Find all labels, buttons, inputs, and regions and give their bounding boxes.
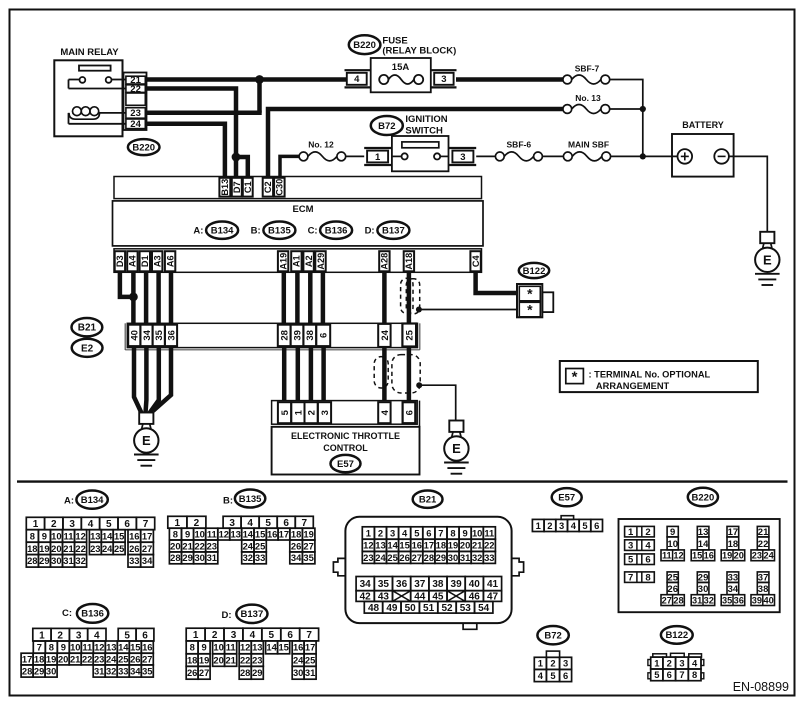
svg-text:26: 26 <box>129 543 139 554</box>
svg-text:B:: B: <box>251 226 261 237</box>
svg-text:23: 23 <box>90 543 100 554</box>
svg-text:53: 53 <box>460 603 472 614</box>
svg-text:18: 18 <box>728 539 739 550</box>
svg-text:50: 50 <box>405 603 417 614</box>
svg-text:E: E <box>763 252 772 267</box>
svg-text:22: 22 <box>240 654 250 665</box>
svg-text:31: 31 <box>94 665 104 676</box>
svg-text:19: 19 <box>722 551 732 561</box>
svg-text:33: 33 <box>118 665 128 676</box>
svg-text:3: 3 <box>563 658 568 669</box>
svg-text:1: 1 <box>654 657 659 668</box>
svg-text:12: 12 <box>673 551 683 561</box>
svg-text:24: 24 <box>293 654 304 665</box>
svg-text:15: 15 <box>114 530 124 541</box>
svg-text:28: 28 <box>27 555 37 566</box>
svg-text:*: * <box>527 302 533 318</box>
connector label E2 <box>72 339 103 357</box>
svg-text:A3: A3 <box>153 255 163 267</box>
wire: bus to battery + <box>643 155 678 157</box>
svg-text:A:: A: <box>193 226 203 237</box>
svg-text:14: 14 <box>698 539 709 550</box>
svg-text:ECM: ECM <box>292 204 313 215</box>
intermediate connector strip B21/E2 <box>124 323 126 350</box>
svg-text:B136: B136 <box>325 226 348 237</box>
connector label B72 (ignition switch) <box>371 116 403 135</box>
svg-text:21: 21 <box>63 543 73 554</box>
svg-text:3: 3 <box>679 657 684 668</box>
svg-text:18: 18 <box>187 654 197 665</box>
wire: B21 39 to E57 1 <box>296 348 301 402</box>
svg-text:3: 3 <box>460 152 465 163</box>
svg-text:13: 13 <box>252 642 262 653</box>
svg-text:29: 29 <box>39 555 49 566</box>
wire: SBF-6 to MAIN SBF <box>542 155 563 157</box>
svg-text:3: 3 <box>231 630 237 641</box>
svg-text:2: 2 <box>307 410 318 415</box>
svg-text:24: 24 <box>763 551 774 561</box>
svg-text:8: 8 <box>173 529 178 540</box>
svg-text:40: 40 <box>130 330 141 341</box>
svg-text:B21: B21 <box>78 323 97 334</box>
svg-text:35: 35 <box>154 329 165 340</box>
svg-text:22: 22 <box>75 543 85 554</box>
svg-text:C30: C30 <box>275 179 285 196</box>
svg-text:21: 21 <box>472 540 482 551</box>
svg-text:15A: 15A <box>392 62 410 73</box>
wire: B21 28 to E57 5 <box>282 348 287 402</box>
wire: No.12 to ignition 1 <box>346 155 365 157</box>
svg-text:A29: A29 <box>316 253 326 270</box>
svg-text:D:: D: <box>365 226 375 237</box>
svg-text:11: 11 <box>662 551 672 561</box>
svg-text:32: 32 <box>106 665 116 676</box>
svg-text:19: 19 <box>303 529 313 540</box>
svg-text:1: 1 <box>366 527 371 538</box>
svg-text:7: 7 <box>143 519 149 530</box>
svg-text:: TERMINAL No. OPTIONAL: : TERMINAL No. OPTIONAL <box>589 370 711 380</box>
svg-text:27: 27 <box>303 540 313 551</box>
svg-text:23: 23 <box>130 108 141 119</box>
svg-text:9: 9 <box>462 527 467 538</box>
wire: ECM A4 to E2 40 <box>131 272 136 326</box>
wire: B21 24 to E57 4 <box>382 348 387 402</box>
wire: No.13 to battery bus <box>610 108 643 110</box>
svg-text:21: 21 <box>225 654 235 665</box>
wire: ECM A3 to E2 35 <box>156 272 161 326</box>
svg-text:13: 13 <box>375 540 385 551</box>
svg-text:A6: A6 <box>165 255 175 267</box>
svg-text:B220: B220 <box>353 40 376 51</box>
wire: ECM A28 to B21 24 <box>382 272 387 326</box>
svg-text:19: 19 <box>199 654 209 665</box>
connector label B220 (main relay) <box>128 139 160 155</box>
svg-text:SWITCH: SWITCH <box>405 126 443 137</box>
svg-text:17: 17 <box>279 529 289 540</box>
svg-text:24: 24 <box>243 540 254 551</box>
svg-text:26: 26 <box>130 653 140 664</box>
junction: No.13/bus <box>640 106 646 112</box>
svg-text:B122: B122 <box>523 266 546 277</box>
svg-text:5: 5 <box>654 669 659 680</box>
svg-text:25: 25 <box>114 543 124 554</box>
svg-text:6: 6 <box>404 410 415 415</box>
svg-text:16: 16 <box>267 529 277 540</box>
wire: B21 38 to E57 2 <box>309 348 314 402</box>
svg-text:9: 9 <box>201 642 206 653</box>
svg-text:4: 4 <box>94 630 100 641</box>
svg-text:3: 3 <box>76 630 82 641</box>
svg-text:11: 11 <box>82 642 92 653</box>
svg-text:15: 15 <box>130 642 140 653</box>
svg-text:30: 30 <box>194 552 204 563</box>
connector label B122 <box>519 263 549 278</box>
wire: ECM A6 to E2 36 <box>169 272 174 326</box>
svg-text:41: 41 <box>487 579 499 590</box>
wire: ECM D1 to E2 34 <box>144 272 149 326</box>
wire: junction down to relay 23 row <box>257 80 262 113</box>
svg-text:31: 31 <box>460 552 470 563</box>
wire: ignition 3 to SBF-6 <box>476 155 495 157</box>
electronic throttle control connector strip <box>272 401 418 425</box>
svg-text:6: 6 <box>645 555 650 566</box>
svg-text:35: 35 <box>722 595 732 605</box>
svg-text:3: 3 <box>559 520 564 531</box>
svg-text:B134: B134 <box>211 226 234 237</box>
svg-text:D7: D7 <box>232 181 242 193</box>
svg-text:22: 22 <box>82 653 92 664</box>
svg-text:5: 5 <box>106 519 112 530</box>
svg-text:B:: B: <box>223 496 233 507</box>
svg-text:1: 1 <box>536 520 541 531</box>
svg-text:30: 30 <box>293 667 303 678</box>
svg-text:2: 2 <box>57 630 63 641</box>
svg-text:9: 9 <box>61 642 66 653</box>
svg-text:34: 34 <box>142 555 153 566</box>
svg-text:2: 2 <box>550 658 555 669</box>
svg-text:2: 2 <box>667 657 672 668</box>
svg-text:39: 39 <box>292 330 303 341</box>
svg-text:*: * <box>572 369 578 386</box>
wire: relay 22 to ECM D7 <box>145 89 236 178</box>
svg-text:No. 12: No. 12 <box>308 140 334 150</box>
svg-text:C:: C: <box>308 226 318 237</box>
svg-text:17: 17 <box>424 540 434 551</box>
svg-text:14: 14 <box>243 529 254 540</box>
svg-text:17: 17 <box>142 530 152 541</box>
svg-text:SBF-6: SBF-6 <box>507 140 532 150</box>
svg-text:40: 40 <box>763 595 773 605</box>
svg-text:26: 26 <box>399 552 409 563</box>
svg-text:20: 20 <box>213 654 223 665</box>
svg-text:5: 5 <box>414 527 419 538</box>
svg-text:5: 5 <box>124 630 130 641</box>
wire: ECM A18 to B21 25 <box>407 272 412 326</box>
svg-text:B136: B136 <box>81 609 104 620</box>
connector B122 pinout <box>661 626 693 644</box>
ground E (battery) <box>760 232 774 243</box>
svg-text:1: 1 <box>39 630 45 641</box>
svg-text:6: 6 <box>563 670 568 681</box>
svg-text:8: 8 <box>190 642 195 653</box>
svg-text:31: 31 <box>692 595 702 605</box>
connector label B220 (fuse/relay block) <box>349 35 381 54</box>
svg-text:14: 14 <box>387 540 398 551</box>
svg-text:26: 26 <box>187 667 197 678</box>
svg-text:33: 33 <box>255 552 265 563</box>
svg-text:54: 54 <box>478 603 490 614</box>
svg-text:6: 6 <box>142 630 148 641</box>
svg-text:28: 28 <box>280 330 291 341</box>
svg-text:10: 10 <box>51 530 61 541</box>
svg-text:1: 1 <box>193 630 199 641</box>
wire: ECM A1 to B21 39 <box>295 272 300 326</box>
svg-text:25: 25 <box>405 329 416 340</box>
svg-text:8: 8 <box>49 642 54 653</box>
svg-text:31: 31 <box>63 555 73 566</box>
svg-text:B134: B134 <box>81 495 104 506</box>
svg-text:E: E <box>452 441 461 456</box>
svg-text:4: 4 <box>380 409 391 415</box>
svg-text:12: 12 <box>94 642 104 653</box>
svg-text:3: 3 <box>320 410 331 415</box>
svg-text:3: 3 <box>390 527 395 538</box>
wire: relay 24 to ECM B13 <box>145 124 225 177</box>
svg-text:9: 9 <box>185 529 190 540</box>
connector B72 pinout <box>537 626 568 644</box>
svg-text:24: 24 <box>380 329 391 340</box>
svg-text:4: 4 <box>250 630 256 641</box>
svg-text:B220: B220 <box>132 142 155 153</box>
wire: optional tap to ground <box>419 385 456 420</box>
svg-text:4: 4 <box>571 520 577 531</box>
svg-text:IGNITION: IGNITION <box>405 114 447 125</box>
svg-text:16: 16 <box>412 540 422 551</box>
svg-text:3: 3 <box>628 541 633 552</box>
svg-text:27: 27 <box>142 653 152 664</box>
svg-text:BATTERY: BATTERY <box>682 120 724 130</box>
svg-text:B137: B137 <box>241 609 264 620</box>
svg-text:7: 7 <box>628 573 633 584</box>
junction: A18 optional tap <box>416 307 422 313</box>
svg-text:34: 34 <box>130 665 141 676</box>
svg-text:31: 31 <box>207 552 217 563</box>
svg-text:A28: A28 <box>380 253 390 270</box>
svg-text:49: 49 <box>386 603 398 614</box>
svg-text:5: 5 <box>280 409 291 415</box>
svg-text:D:: D: <box>221 610 231 621</box>
wire: B21 25 to E57 6 <box>407 348 412 402</box>
svg-text:ELECTRONIC THROTTLE: ELECTRONIC THROTTLE <box>291 431 400 441</box>
svg-text:31: 31 <box>305 667 315 678</box>
svg-text:16: 16 <box>129 530 139 541</box>
svg-text:ARRANGEMENT: ARRANGEMENT <box>596 381 670 391</box>
svg-text:C1: C1 <box>243 181 253 193</box>
svg-text:A18: A18 <box>404 253 414 270</box>
svg-text:20: 20 <box>51 543 61 554</box>
svg-text:30: 30 <box>46 665 56 676</box>
svg-text:16: 16 <box>293 642 303 653</box>
main relay terminal strip (pins 21-24) <box>124 73 147 131</box>
svg-text:(RELAY BLOCK): (RELAY BLOCK) <box>382 46 456 57</box>
svg-text:16: 16 <box>704 551 714 561</box>
svg-text:27: 27 <box>662 595 672 605</box>
svg-text:12: 12 <box>363 540 373 551</box>
svg-text:5: 5 <box>550 670 555 681</box>
svg-text:24: 24 <box>102 543 113 554</box>
svg-text:28: 28 <box>22 665 32 676</box>
svg-text:11: 11 <box>64 530 74 541</box>
svg-text:22: 22 <box>194 540 204 551</box>
svg-text:6: 6 <box>124 519 130 530</box>
svg-text:35: 35 <box>303 552 313 563</box>
svg-text:15: 15 <box>399 540 409 551</box>
svg-text:15: 15 <box>255 529 265 540</box>
svg-text:38: 38 <box>305 330 316 341</box>
svg-text:22: 22 <box>484 540 494 551</box>
svg-text:E: E <box>142 433 151 448</box>
svg-text:2: 2 <box>51 519 57 530</box>
svg-text:51: 51 <box>423 603 435 614</box>
svg-text:36: 36 <box>734 595 744 605</box>
svg-text:39: 39 <box>451 579 463 590</box>
svg-text:C4: C4 <box>471 254 481 267</box>
svg-text:6: 6 <box>667 669 672 680</box>
wire: ECM A29 to B21 6 <box>321 272 326 326</box>
svg-text:37: 37 <box>414 579 426 590</box>
svg-text:4: 4 <box>354 74 360 85</box>
svg-text:11: 11 <box>226 642 236 653</box>
svg-text:9: 9 <box>42 530 47 541</box>
svg-text:38: 38 <box>758 584 769 595</box>
svg-text:8: 8 <box>692 669 697 680</box>
svg-text:EN-08899: EN-08899 <box>733 680 789 694</box>
svg-text:23: 23 <box>207 540 217 551</box>
svg-text:B135: B135 <box>268 226 291 237</box>
svg-text:21: 21 <box>70 653 80 664</box>
svg-text:35: 35 <box>142 665 152 676</box>
svg-text:19: 19 <box>39 543 49 554</box>
wire: ECM C4 to B122 <box>476 272 520 293</box>
svg-text:24: 24 <box>375 552 386 563</box>
svg-text:5: 5 <box>269 630 275 641</box>
fuse terminal 4 <box>345 69 371 71</box>
svg-text:12: 12 <box>75 530 85 541</box>
wire: relay 23 horizontal <box>145 110 262 115</box>
svg-text:7: 7 <box>306 630 312 641</box>
svg-text:4: 4 <box>247 518 253 529</box>
svg-text:2: 2 <box>212 630 218 641</box>
svg-text:36: 36 <box>166 330 177 341</box>
svg-text:3: 3 <box>69 519 75 530</box>
svg-text:28: 28 <box>170 552 180 563</box>
svg-text:18: 18 <box>27 543 37 554</box>
svg-text:5: 5 <box>628 555 634 566</box>
svg-text:33: 33 <box>484 552 494 563</box>
svg-text:28: 28 <box>673 595 683 605</box>
svg-text:20: 20 <box>58 653 68 664</box>
svg-text:39: 39 <box>752 595 762 605</box>
svg-text:B135: B135 <box>239 494 262 505</box>
svg-text:1: 1 <box>628 527 634 538</box>
svg-text:B13: B13 <box>220 179 230 196</box>
svg-text:3: 3 <box>441 74 446 85</box>
svg-text:7: 7 <box>438 527 443 538</box>
svg-text:13: 13 <box>90 530 100 541</box>
svg-text:38: 38 <box>432 579 444 590</box>
wire: ECM C30 to fuse No.12 <box>280 156 299 177</box>
svg-text:CONTROL: CONTROL <box>323 443 368 453</box>
svg-text:24: 24 <box>130 119 141 130</box>
svg-text:28: 28 <box>240 667 250 678</box>
svg-text:34: 34 <box>360 579 372 590</box>
svg-text:29: 29 <box>182 552 192 563</box>
svg-text:17: 17 <box>305 642 315 653</box>
svg-text:E57: E57 <box>558 493 575 504</box>
junction: relay21/No.13 feed <box>255 75 264 84</box>
wire: ECM A2 to B21 38 <box>308 272 313 326</box>
svg-text:4: 4 <box>538 670 544 681</box>
svg-text:7: 7 <box>302 518 308 529</box>
ignition switch S1 <box>392 136 449 171</box>
svg-text:32: 32 <box>75 555 85 566</box>
svg-text:12: 12 <box>240 642 250 653</box>
svg-text:48: 48 <box>368 603 380 614</box>
junction: E57 optional tap <box>416 382 422 388</box>
svg-text:25: 25 <box>255 540 265 551</box>
svg-text:40: 40 <box>469 579 481 590</box>
svg-text:18: 18 <box>291 529 301 540</box>
svg-text:10: 10 <box>213 642 223 653</box>
connector E57 pinout <box>552 488 582 506</box>
svg-text:3: 3 <box>229 518 235 529</box>
svg-text:19: 19 <box>46 653 56 664</box>
svg-text:26: 26 <box>667 584 678 595</box>
svg-text:6: 6 <box>319 333 330 338</box>
svg-text:28: 28 <box>424 552 434 563</box>
svg-text:27: 27 <box>199 667 209 678</box>
svg-text:B72: B72 <box>378 121 395 132</box>
wire: optional tap to B122 <box>419 309 519 311</box>
ignition switch terminal 1 <box>364 147 392 149</box>
svg-text:30: 30 <box>51 555 61 566</box>
svg-text:24: 24 <box>106 653 117 664</box>
junction: D3/A4 <box>129 293 138 302</box>
svg-text:4: 4 <box>402 527 408 538</box>
fuse 15A <box>371 58 431 92</box>
svg-text:2: 2 <box>547 520 552 531</box>
svg-text:B72: B72 <box>544 631 561 642</box>
svg-text:E57: E57 <box>337 459 354 470</box>
note: terminal no. optional arrangement <box>560 361 758 392</box>
svg-text:2: 2 <box>194 518 200 529</box>
svg-text:A2: A2 <box>304 255 314 267</box>
svg-text:18: 18 <box>436 540 446 551</box>
svg-text:10: 10 <box>70 642 80 653</box>
svg-text:29: 29 <box>252 667 262 678</box>
svg-text:MAIN RELAY: MAIN RELAY <box>60 47 119 58</box>
svg-text:23: 23 <box>363 552 373 563</box>
wire: SBF-7 to battery bus <box>610 80 643 157</box>
svg-text:23: 23 <box>252 654 262 665</box>
svg-text:20: 20 <box>170 540 180 551</box>
svg-text:34: 34 <box>142 329 153 340</box>
svg-text:25: 25 <box>118 653 128 664</box>
connector label B21 <box>72 318 103 336</box>
svg-text:19: 19 <box>448 540 458 551</box>
svg-text:29: 29 <box>436 552 446 563</box>
svg-text:10: 10 <box>194 529 204 540</box>
